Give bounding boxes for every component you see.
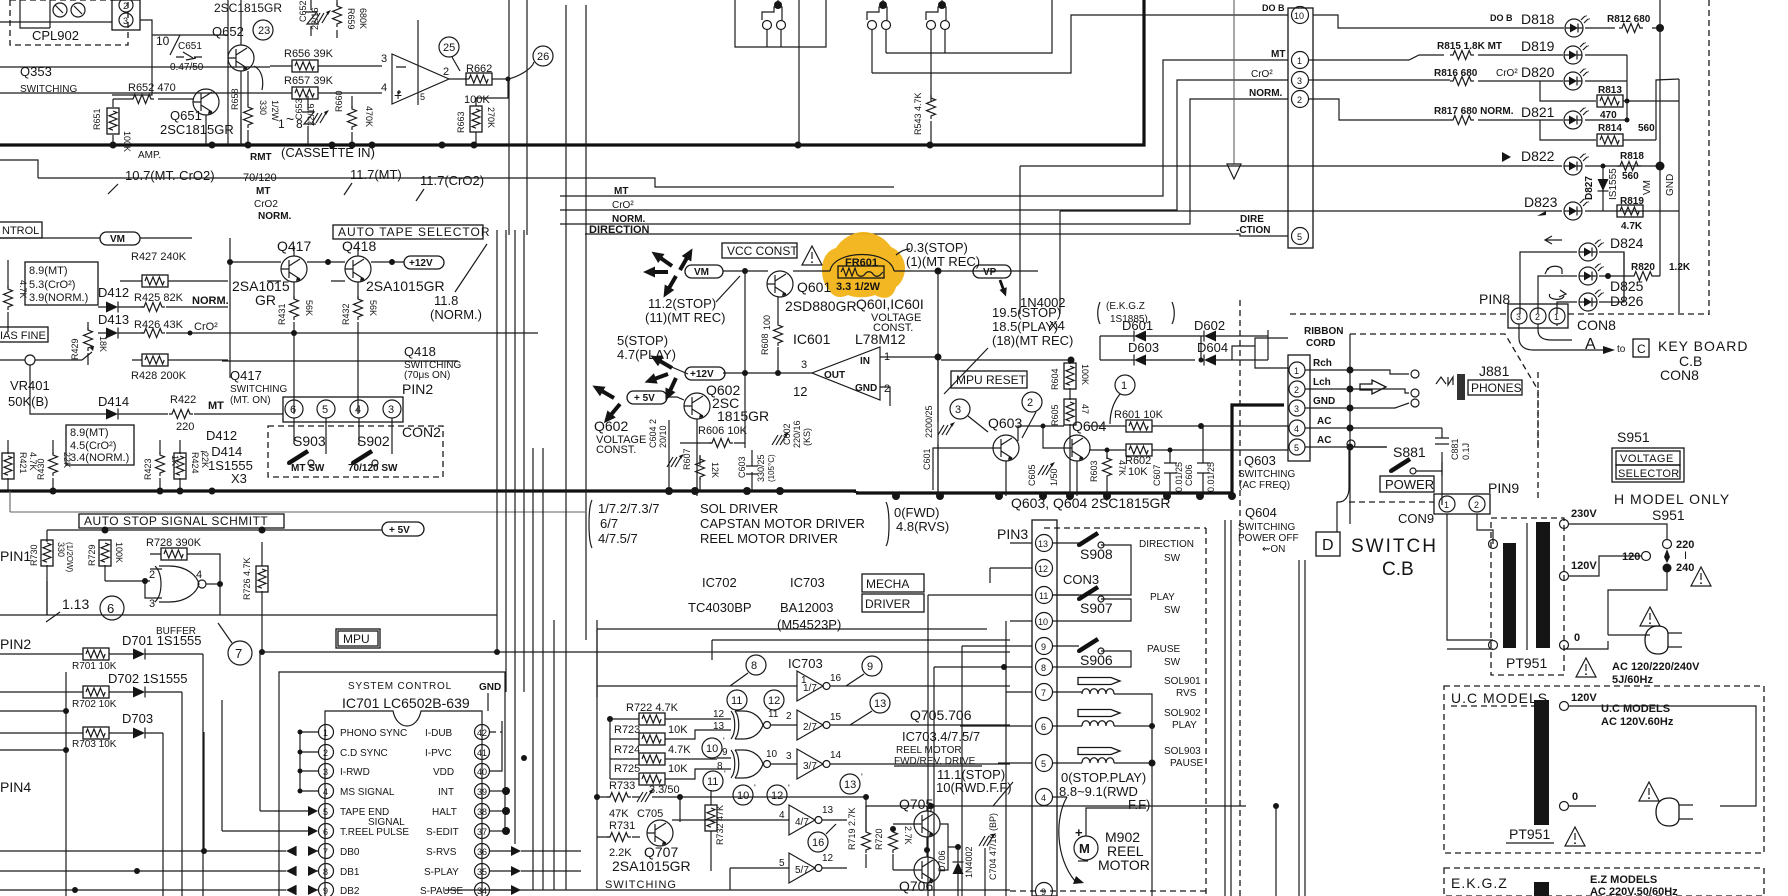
svg-text:MOTOR: MOTOR: [1098, 857, 1150, 873]
transformer UC bar: [1534, 692, 1597, 825]
wire: cpl to q652: [112, 20, 228, 95]
transformer PT951: [1491, 518, 1564, 675]
resistor R726 4.7K: [242, 542, 268, 652]
node circle 12: [764, 690, 784, 710]
resistor R657 39K: [270, 75, 382, 99]
node +12V pill: [404, 256, 444, 269]
svg-text:5.3(CrO²): 5.3(CrO²): [29, 279, 75, 291]
wire: mid thick bus to GND circle3: [856, 405, 1284, 500]
svg-text:Q418: Q418: [404, 344, 436, 359]
svg-text:U.C MODELS: U.C MODELS: [1601, 703, 1670, 715]
resistor R728 390K: [146, 537, 205, 560]
connector lower ladder: [1288, 355, 1310, 461]
svg-text:2SC1815GR: 2SC1815GR: [214, 1, 282, 15]
wire: vertical bundle mid page: [497, 230, 524, 844]
label Q601,IC601 voltage const: [793, 296, 924, 347]
svg-text:5: 5: [779, 858, 785, 869]
node VM pill: [685, 265, 723, 278]
svg-text:7: 7: [235, 646, 242, 661]
wire: ribbon vertical: [1347, 334, 1354, 524]
label 0.3(STOP): [896, 240, 980, 269]
svg-text:35: 35: [477, 867, 487, 877]
svg-text:2.7K: 2.7K: [903, 826, 913, 845]
svg-text:1815GR: 1815GR: [717, 408, 769, 424]
svg-text:4.8(RVS): 4.8(RVS): [896, 519, 949, 534]
wire: DO B net: [872, 0, 1288, 73]
svg-text:CON8: CON8: [1660, 367, 1699, 383]
svg-text:DB0: DB0: [340, 847, 360, 858]
IC701 pin 8 DB1: [0, 864, 360, 879]
diodes 1N4002 X4: [1020, 295, 1174, 333]
svg-text:47K: 47K: [1117, 460, 1127, 476]
wire: gate wiring: [47, 554, 223, 615]
resistor R820 1.2K: [1608, 262, 1691, 281]
pot VR401: [0, 346, 94, 409]
svg-text:DIRE: DIRE: [1240, 214, 1264, 225]
wire: OUT rail y=373: [723, 370, 812, 376]
svg-text:SWITCHING: SWITCHING: [230, 384, 287, 395]
svg-text:560: 560: [1638, 123, 1655, 134]
capacitor C881 0.1J: [1435, 428, 1471, 472]
resistor R659 680K: [333, 0, 369, 38]
wire: main AMP bus (thick L): [0, 0, 1144, 149]
svg-text:PAUSE: PAUSE: [1147, 644, 1180, 655]
resistor R429 18K: [70, 322, 108, 365]
svg-text:R730: R730: [29, 544, 39, 566]
gate 2/7: [797, 710, 1010, 740]
svg-text:R543 4.7K: R543 4.7K: [913, 92, 923, 135]
label Q418 SWITCHING: [404, 344, 461, 381]
svg-text:C601: C601: [922, 448, 932, 470]
svg-text:E.K.G.Z: E.K.G.Z: [1451, 875, 1508, 891]
svg-text:D602: D602: [1194, 318, 1225, 333]
svg-text:S-RVS: S-RVS: [426, 847, 457, 858]
svg-text:5: 5: [322, 404, 328, 416]
svg-text:SYSTEM CONTROL: SYSTEM CONTROL: [348, 681, 452, 692]
svg-text:9: 9: [867, 661, 873, 673]
svg-text:+12V: +12V: [690, 369, 714, 380]
svg-text:1: 1: [801, 675, 807, 686]
svg-text:8: 8: [751, 660, 757, 672]
svg-text:12K: 12K: [710, 462, 720, 478]
svg-text:230V: 230V: [1571, 508, 1597, 520]
arrows cluster VM: [643, 246, 697, 301]
svg-text:1: 1: [1121, 380, 1127, 392]
svg-text:40: 40: [477, 767, 487, 777]
svg-text:2SA1015GR: 2SA1015GR: [612, 858, 691, 874]
svg-text:R652 470: R652 470: [128, 82, 176, 94]
svg-text:S951: S951: [1617, 429, 1650, 445]
svg-text:C704 47/10 (BP): C704 47/10 (BP): [988, 813, 998, 880]
svg-text:4.7K: 4.7K: [1621, 221, 1643, 232]
capacitor C604 220/10: [648, 419, 684, 491]
svg-text:D706: D706: [937, 850, 947, 872]
box D: [1316, 532, 1340, 556]
svg-text:D601: D601: [1122, 318, 1153, 333]
svg-text:PIN4: PIN4: [0, 779, 31, 795]
warning + plug UC: [1596, 782, 1693, 826]
solenoid SOL902: [1053, 708, 1201, 731]
svg-text:': ': [724, 769, 726, 779]
svg-text:7: 7: [323, 847, 328, 857]
svg-text:8: 8: [717, 761, 723, 772]
switch group 3: [926, 0, 950, 101]
svg-text:R720: R720: [874, 828, 884, 850]
svg-text:4.7K: 4.7K: [18, 280, 28, 299]
resistor R729 100K: [87, 540, 124, 581]
IC701 pin 5 TAPE END: [260, 804, 405, 829]
svg-text:10: 10: [1038, 617, 1048, 627]
svg-text:VCC CONST: VCC CONST: [727, 244, 798, 258]
svg-text:56K: 56K: [304, 300, 314, 316]
node circle 12p: [767, 783, 790, 805]
svg-text:3: 3: [149, 598, 155, 610]
svg-text:R728 390K: R728 390K: [146, 537, 202, 549]
gate xor A: [713, 709, 797, 739]
svg-text:4: 4: [779, 810, 785, 821]
IC701 pin 1 PHONO SYNC: [319, 725, 408, 740]
svg-text:1: 1: [323, 728, 328, 738]
svg-text:R608: R608: [760, 333, 770, 355]
svg-text:C.D SYNC: C.D SYNC: [340, 748, 388, 759]
svg-text:4: 4: [1041, 793, 1046, 803]
svg-text:I-PVC: I-PVC: [425, 748, 452, 759]
svg-text:R419: R419: [0, 273, 2, 295]
diode D706: [937, 846, 974, 896]
svg-text:10(RWD.F.F): 10(RWD.F.F): [936, 780, 1012, 795]
ground C704: [979, 813, 998, 896]
svg-text:11: 11: [731, 695, 742, 707]
resistor R424 22K: [174, 440, 210, 490]
svg-text:R428 200K: R428 200K: [131, 370, 187, 382]
node 25: [439, 37, 460, 71]
wire: line y=615: [0, 614, 497, 616]
transistor Q603: [933, 415, 1022, 490]
svg-text:2: 2: [149, 569, 155, 581]
svg-text:15: 15: [830, 712, 842, 723]
gate 5/7: [730, 853, 847, 890]
svg-text:3.4(NORM.): 3.4(NORM.): [70, 452, 129, 464]
node circle 1: [1110, 375, 1135, 424]
resistor R432 56K: [341, 282, 378, 414]
svg-text:SWITCHING: SWITCHING: [605, 879, 677, 891]
wire: left pin bus: [260, 652, 318, 811]
svg-text:S907: S907: [1080, 600, 1113, 616]
wire: feeds to CON3: [928, 543, 1032, 896]
svg-text:10: 10: [1294, 11, 1304, 21]
svg-text:RVS: RVS: [1176, 688, 1197, 699]
svg-text:BA12003: BA12003: [780, 600, 834, 615]
IC701 outline: [325, 693, 488, 896]
resistor R605 47: [1050, 396, 1090, 496]
Q353 label: [20, 64, 77, 95]
svg-text:R423: R423: [143, 458, 153, 480]
svg-text:560: 560: [1622, 171, 1639, 182]
wire: CrO2 net y=210: [560, 80, 1288, 210]
wire: row 797: [594, 794, 869, 829]
resistor R423 1K: [143, 440, 180, 490]
svg-text:330: 330: [258, 100, 268, 115]
IC701 right pin 41 I-PVC: [425, 745, 490, 760]
svg-text:0.3(STOP): 0.3(STOP): [906, 240, 968, 255]
svg-text:0.01/25: 0.01/25: [1206, 462, 1216, 492]
wire: base line: [1018, 424, 1064, 442]
wire: D819 row: [1309, 38, 1627, 64]
wire: 12V rail: [227, 238, 404, 378]
wire: CrO2 row: [188, 330, 539, 336]
svg-text:1: 1: [1444, 500, 1449, 510]
switch box S903 S902: [268, 418, 443, 477]
resistor R421 4.7K: [2, 440, 38, 490]
led D826: [1557, 252, 1644, 314]
svg-text:22K: 22K: [62, 452, 72, 468]
label 11.2(STOP): [645, 276, 740, 325]
diode D412: [98, 285, 132, 313]
wire: bottom border line: [445, 889, 1010, 891]
svg-text:220/16: 220/16: [792, 420, 802, 448]
svg-text:23: 23: [258, 25, 270, 37]
svg-text:(KS): (KS): [802, 428, 812, 446]
wire: NORM net y=224: [560, 99, 1288, 224]
svg-text:~ D414: ~ D414: [200, 444, 242, 459]
svg-text:PHONES: PHONES: [1471, 381, 1522, 395]
svg-text:HALT: HALT: [432, 807, 457, 818]
wire: DIRECTION net y=234: [585, 234, 1288, 236]
box 8.9(MT) 4.5(CrO2) 3.4(NORM.): [66, 425, 134, 465]
wire: vertical bundle 2: [509, 0, 597, 890]
svg-text:CORD: CORD: [1306, 338, 1335, 349]
box MPU: [336, 629, 380, 648]
svg-text:R421: R421: [18, 452, 28, 474]
svg-text:100: 100: [762, 315, 772, 330]
resistor R543 4.7K: [913, 92, 936, 145]
arrows cluster 5V: [590, 381, 625, 427]
diode D604: [1197, 340, 1228, 366]
IC701 right pin 40 VDD: [433, 721, 502, 779]
dashed ribbon line: [1290, 313, 1709, 315]
svg-text:2200/25: 2200/25: [924, 405, 934, 438]
svg-text:34: 34: [477, 886, 487, 896]
resistor R731 2.2K: [597, 820, 640, 859]
svg-text:240: 240: [1676, 562, 1694, 574]
svg-text:(1/2OW): (1/2OW): [65, 542, 74, 573]
label 0(FWD) 4.8(RVS): [894, 505, 949, 534]
box AUTO STOP SIGNAL SCHMITT: [79, 514, 284, 528]
wire: con8 to keyboard: [1519, 324, 1748, 383]
box MECHA DRIVER: [862, 574, 924, 612]
transistor Q707: [612, 820, 691, 874]
svg-text:2: 2: [786, 711, 792, 722]
node circle 6: [100, 596, 124, 620]
svg-text:C705: C705: [637, 808, 663, 820]
svg-text:Q603: Q603: [988, 415, 1022, 431]
node +12V pill: [685, 367, 725, 380]
svg-text:NORM.: NORM.: [258, 211, 292, 222]
solenoid SOL901: [1053, 676, 1201, 726]
wire: norm row: [222, 360, 458, 362]
wire: emitter drops: [999, 461, 1077, 496]
connector circles 2,3: [112, 0, 140, 30]
svg-text:CrO²: CrO²: [1496, 68, 1518, 79]
svg-text:26: 26: [537, 51, 549, 63]
svg-text:4: 4: [381, 82, 387, 94]
svg-text:R432: R432: [341, 303, 351, 325]
svg-text:IS1555: IS1555: [1608, 168, 1619, 200]
svg-text:PAUSE: PAUSE: [1170, 758, 1203, 769]
svg-text:Q418: Q418: [342, 238, 376, 254]
svg-text:R658: R658: [230, 88, 240, 110]
svg-text:Rch: Rch: [1313, 358, 1332, 369]
svg-text:D701 1S1555: D701 1S1555: [122, 633, 202, 648]
svg-text:25: 25: [443, 42, 455, 54]
svg-text:8.8~9.1(RWD: 8.8~9.1(RWD: [1059, 784, 1138, 799]
label 1~8: [278, 111, 303, 131]
svg-text:AUTO STOP SIGNAL SCHMITT: AUTO STOP SIGNAL SCHMITT: [84, 514, 268, 528]
capacitor C606 0.01/25: [1184, 426, 1216, 496]
resistor R425 82K: [132, 292, 228, 312]
capacitor C651: [170, 41, 204, 73]
transformer terminals: [1489, 508, 1598, 650]
transistor Q651: [160, 89, 234, 145]
svg-text:330/25: 330/25: [756, 454, 766, 482]
svg-text:20/10: 20/10: [658, 425, 668, 448]
resistor R724 4.7K: [521, 739, 717, 765]
svg-text:70/120 SW: 70/120 SW: [348, 463, 398, 474]
box AUTO TAPE SELECTOR: [333, 225, 490, 239]
svg-text:C603: C603: [737, 456, 747, 478]
node VM pill: [0, 232, 192, 245]
svg-text:PIN3: PIN3: [997, 526, 1028, 542]
resistor R608 100: [760, 297, 783, 373]
svg-text:+: +: [394, 87, 402, 103]
transistor Q417: [277, 238, 311, 282]
svg-text:R816 680: R816 680: [1434, 68, 1478, 79]
svg-text:C605: C605: [1027, 464, 1037, 486]
svg-text:AMP.: AMP.: [138, 150, 161, 161]
svg-text:MT: MT: [208, 400, 224, 412]
svg-text:3: 3: [388, 404, 394, 416]
svg-text:R659: R659: [346, 8, 356, 30]
svg-text:R430: R430: [36, 458, 46, 480]
svg-text:R815 1.8K MT: R815 1.8K MT: [1437, 41, 1502, 52]
svg-text:I-RWD: I-RWD: [340, 767, 370, 778]
node circle 13p: [840, 772, 863, 794]
label Q602 voltage const: [594, 418, 646, 456]
svg-text:⇜ON: ⇜ON: [1262, 544, 1285, 555]
IC701 pin 2 C.D SYNC: [319, 745, 388, 760]
svg-text:16: 16: [812, 837, 824, 849]
svg-text:GND: GND: [1665, 174, 1676, 196]
svg-text:D: D: [1322, 537, 1334, 554]
svg-text:R604: R604: [1050, 368, 1060, 390]
svg-text:8.9(MT): 8.9(MT): [29, 265, 68, 277]
svg-text:S-PLAY: S-PLAY: [424, 867, 459, 878]
svg-text:R729: R729: [87, 544, 97, 566]
svg-text:IN: IN: [860, 356, 870, 367]
labels under bus 2: [108, 167, 484, 222]
transistor Q604: [1043, 418, 1106, 461]
connector CON8: [1508, 304, 1616, 333]
arrows cluster 12V: [643, 351, 681, 403]
svg-text:MPU: MPU: [343, 632, 370, 646]
svg-text:KEY BOARD: KEY BOARD: [1658, 338, 1748, 354]
resistor R725 10K: [610, 759, 717, 785]
svg-text:+ 5V: + 5V: [634, 393, 655, 404]
svg-text:1/50: 1/50: [1049, 468, 1059, 486]
svg-text:M: M: [1079, 841, 1090, 856]
svg-text:H MODEL ONLY: H MODEL ONLY: [1614, 491, 1730, 507]
svg-text:SWITCHING: SWITCHING: [1238, 522, 1295, 533]
svg-text:1: 1: [1297, 56, 1302, 66]
diode D703 row: [0, 711, 163, 896]
diode D413: [98, 312, 132, 339]
label D412~D414 1S1555 X3: [200, 428, 253, 486]
svg-text:C881: C881: [1450, 438, 1460, 460]
svg-text:42: 42: [477, 728, 487, 738]
label SOL/CAPSTAN/REEL driver: [589, 500, 889, 548]
svg-text:DO B: DO B: [1490, 13, 1513, 23]
resistor R652 470: [113, 82, 178, 104]
svg-text:5(STOP): 5(STOP): [617, 333, 668, 348]
svg-text:4: 4: [355, 404, 361, 416]
svg-text:R657 39K: R657 39K: [284, 75, 334, 87]
svg-text:SOL DRIVER: SOL DRIVER: [700, 501, 778, 516]
wire: D823 row: [1060, 194, 1679, 314]
svg-text:3.3/50: 3.3/50: [649, 784, 680, 796]
svg-text:9: 9: [722, 747, 728, 758]
svg-text:6: 6: [290, 404, 296, 416]
transistor Q706: [893, 847, 940, 894]
transistor Q418: [342, 238, 376, 282]
diode D603: [1128, 340, 1159, 366]
svg-text:D413: D413: [98, 312, 129, 327]
node circle 11p: [703, 769, 726, 791]
svg-text:680K: 680K: [358, 8, 368, 29]
svg-text:2: 2: [443, 66, 449, 78]
svg-text:OUT: OUT: [824, 370, 845, 381]
svg-text:5: 5: [1041, 759, 1046, 769]
svg-text:220: 220: [176, 421, 194, 433]
svg-text:D412: D412: [206, 428, 237, 443]
svg-text:DO B: DO B: [1262, 3, 1285, 13]
regulator IC601 triangle: [793, 347, 905, 406]
svg-text:NORM.: NORM.: [192, 295, 229, 307]
svg-text:MT: MT: [614, 186, 628, 197]
svg-text:D823: D823: [1524, 194, 1558, 210]
svg-text:to: to: [1617, 344, 1626, 355]
svg-text:(NORM.): (NORM.): [430, 307, 482, 322]
svg-text:2SC1815GR: 2SC1815GR: [160, 122, 234, 137]
IC701 right pin 37 S-EDIT: [426, 824, 510, 839]
svg-text:+ 5V: + 5V: [389, 525, 410, 536]
svg-text:3: 3: [1516, 312, 1521, 322]
svg-text:Q705: Q705: [899, 796, 933, 812]
label Q604 switching: [1238, 505, 1299, 555]
svg-text:5: 5: [1294, 443, 1299, 453]
svg-text:120V: 120V: [1571, 692, 1597, 704]
wire: thick bus y=490 left: [0, 487, 856, 495]
svg-text:C652: C652: [298, 0, 308, 22]
svg-text:3: 3: [123, 16, 128, 26]
label VOLTAGE SELECTOR: [1612, 448, 1684, 482]
node circle 11: [727, 690, 747, 710]
svg-text:AC: AC: [1317, 416, 1331, 427]
resistor R720 2.7K: [874, 826, 913, 868]
gate 3/7: [797, 749, 1010, 779]
svg-text:MPU RESET: MPU RESET: [956, 373, 1027, 387]
svg-text:R607: R607: [682, 448, 692, 470]
wire: left feeders: [0, 0, 241, 178]
